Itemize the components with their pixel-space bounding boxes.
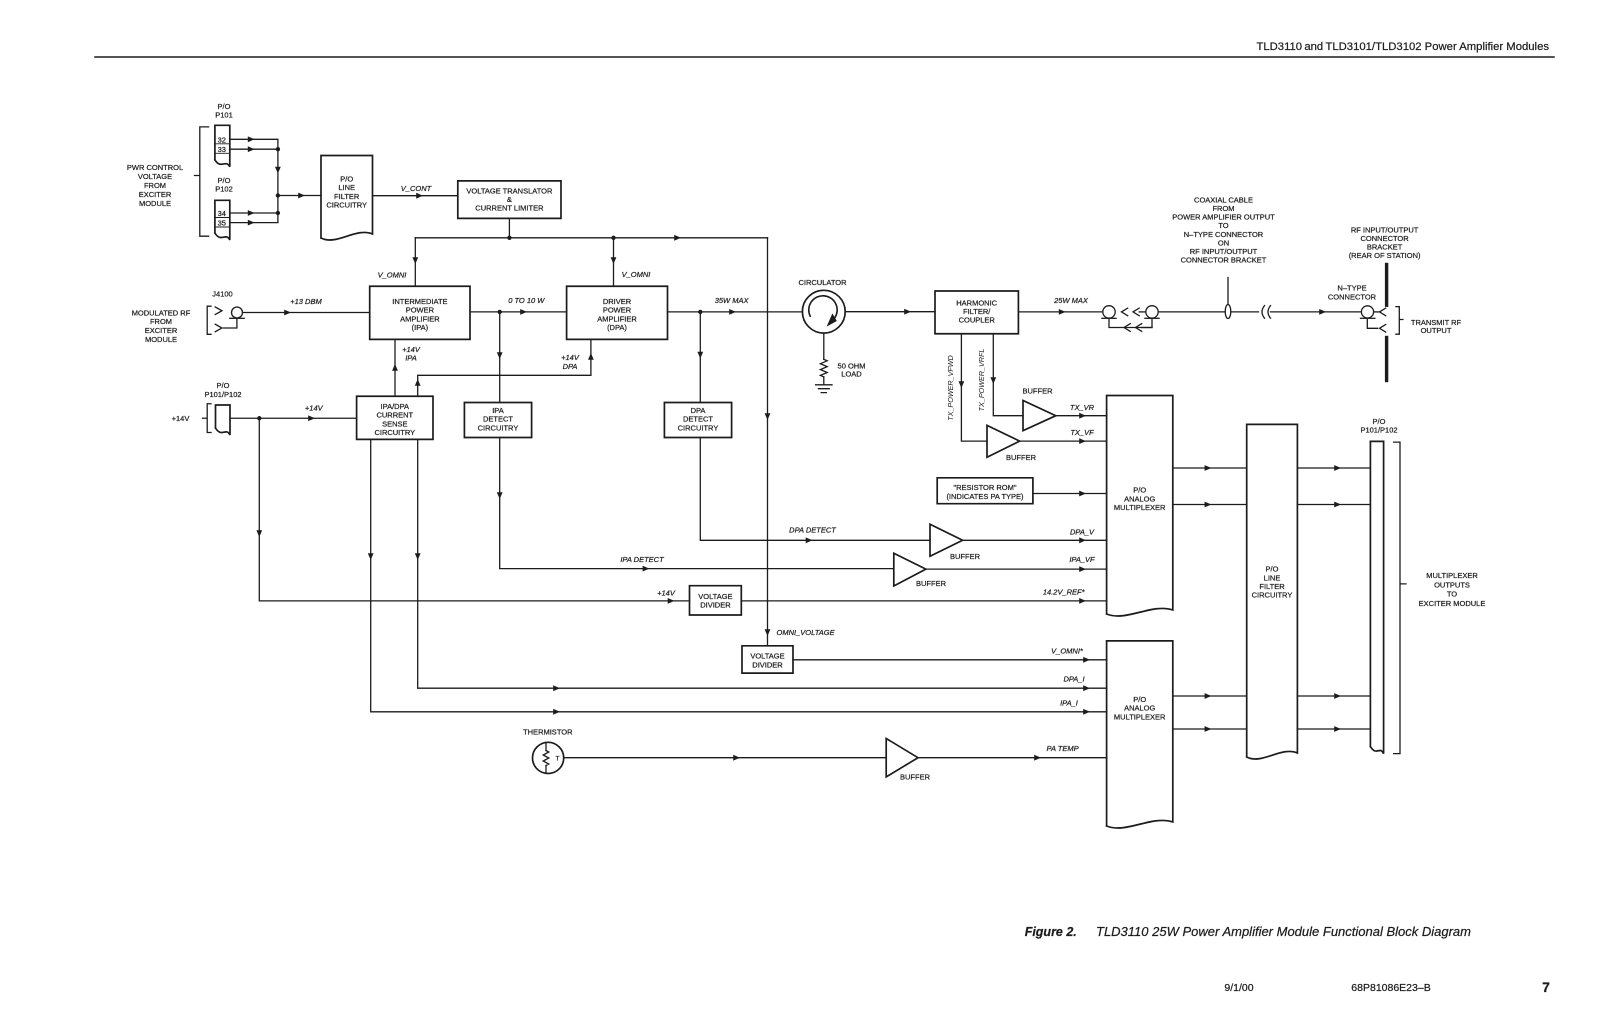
connector RF jack circle bbox=[230, 307, 244, 318]
block IPA DETECT CIRCUITRY bbox=[464, 403, 531, 438]
label RF INPUT/OUTPUT CONNECTOR BRACKET bbox=[1349, 225, 1421, 260]
block P/O LINE FILTER CIRCUITRY (right) bbox=[1247, 424, 1298, 759]
svg-text:DIVIDER: DIVIDER bbox=[752, 660, 783, 669]
caption Figure 2 bbox=[1025, 924, 1471, 939]
wire bus down to omni voltage divider bbox=[765, 238, 771, 646]
svg-text:MODULATED RF: MODULATED RF bbox=[132, 308, 191, 317]
label V_CONT bbox=[401, 184, 433, 193]
svg-text:FROM: FROM bbox=[150, 317, 172, 326]
wire mux2 out lower bbox=[1173, 726, 1247, 732]
label DPA DETECT bbox=[789, 526, 837, 535]
wire filter out 3 bbox=[1297, 693, 1370, 699]
wire mux2 out upper bbox=[1173, 693, 1247, 699]
label 25W MAX bbox=[1053, 296, 1089, 305]
block VOLTAGE DIVIDER (14.2V_REF) bbox=[690, 586, 742, 615]
wire filter out 4 bbox=[1297, 726, 1370, 732]
wire junction down to main node bbox=[275, 149, 281, 195]
bracket +14V connector bbox=[203, 404, 212, 433]
svg-text:33: 33 bbox=[218, 145, 226, 154]
svg-text:DPA: DPA bbox=[563, 362, 578, 371]
connector P102 (pins 34,35) bbox=[215, 200, 230, 240]
footer doc number bbox=[1351, 982, 1430, 994]
wire ROM to multiplexer bbox=[1033, 491, 1107, 497]
svg-text:P/O: P/O bbox=[1133, 486, 1146, 495]
node IPA output junction bbox=[498, 310, 502, 314]
label CIRCULATOR bbox=[798, 278, 847, 287]
svg-text:32: 32 bbox=[218, 135, 226, 144]
wire cable marker to break bbox=[1231, 311, 1259, 313]
node +14V junction bbox=[257, 416, 261, 420]
block IPA/DPA CURRENT SENSE CIRCUITRY bbox=[357, 396, 433, 439]
wire sense DPA_I out bbox=[415, 439, 1107, 691]
bracket bar upper bbox=[1385, 265, 1388, 306]
buffer DPA_V bbox=[930, 524, 963, 556]
svg-text:BUFFER: BUFFER bbox=[900, 772, 931, 781]
svg-text:FROM: FROM bbox=[144, 181, 166, 190]
wire TX_VF to multiplexer bbox=[1020, 438, 1107, 444]
label +14V (divider) bbox=[657, 588, 676, 597]
svg-text:35: 35 bbox=[218, 219, 226, 228]
wire DPA DETECT signal bbox=[700, 438, 930, 544]
buffer TX_VR (op-amp triangle) bbox=[1023, 401, 1056, 431]
svg-text:TO: TO bbox=[1447, 590, 1457, 599]
svg-text:LINE: LINE bbox=[1264, 573, 1281, 582]
label TX_POWER_VRFL bbox=[977, 349, 986, 412]
wire main node to line filter bbox=[278, 193, 321, 199]
block VOLTAGE TRANSLATOR & CURRENT LIMITER bbox=[458, 181, 561, 219]
svg-text:V_OMNI: V_OMNI bbox=[378, 271, 407, 280]
bracket left of P101/P102 bbox=[195, 127, 209, 236]
label BUFFER (TX_VF) bbox=[1006, 453, 1037, 462]
rf flow arrow lower 2 bbox=[1136, 324, 1153, 332]
wire +14V to current sense bbox=[230, 415, 357, 421]
page number 7 bbox=[1542, 979, 1550, 995]
svg-text:(REAR OF STATION): (REAR OF STATION) bbox=[1349, 251, 1421, 260]
wire TX_POWER_VFWD bbox=[959, 334, 988, 441]
connector coupler circle 2 bbox=[1145, 306, 1159, 319]
svg-text:IPA: IPA bbox=[405, 354, 417, 363]
svg-text:ANALOG: ANALOG bbox=[1124, 704, 1155, 713]
svg-text:+14V: +14V bbox=[561, 353, 580, 362]
svg-text:0 TO 10 W: 0 TO 10 W bbox=[508, 296, 545, 305]
svg-text:Figure 2.: Figure 2. bbox=[1025, 925, 1077, 939]
node DPA output junction bbox=[698, 310, 702, 314]
svg-text:34: 34 bbox=[218, 209, 226, 218]
svg-text:VOLTAGE: VOLTAGE bbox=[750, 652, 784, 661]
svg-text:25W MAX: 25W MAX bbox=[1053, 296, 1089, 305]
wire N connector to bracket bbox=[1374, 311, 1379, 313]
svg-text:7: 7 bbox=[1542, 979, 1550, 995]
svg-text:+14V: +14V bbox=[402, 345, 421, 354]
svg-text:CONNECTOR: CONNECTOR bbox=[1328, 292, 1377, 301]
pin chevron J4100 bottom bbox=[215, 324, 222, 332]
svg-text:ANALOG: ANALOG bbox=[1124, 494, 1155, 503]
pin chevron J4100 top bbox=[215, 307, 222, 315]
wire sense IPA_I out bbox=[368, 439, 1107, 714]
leader coax label to marker bbox=[1227, 278, 1229, 305]
wire pin 34 to junction bbox=[230, 210, 278, 216]
wire +14V down to voltage divider bbox=[256, 418, 689, 604]
label TX_VR bbox=[1070, 403, 1095, 412]
wire circulator to harmonic filter bbox=[845, 309, 935, 315]
wire mux1 out lower bbox=[1173, 502, 1247, 508]
wire bus down to IPA bbox=[412, 238, 418, 286]
svg-text:TX_POWER_VFWD: TX_POWER_VFWD bbox=[946, 355, 955, 421]
wire thermistor to buffer bbox=[564, 755, 887, 761]
label V_OMNI (DPA) bbox=[622, 270, 651, 279]
svg-text:35W MAX: 35W MAX bbox=[715, 296, 750, 305]
wire V_OMNI* to multiplexer bbox=[793, 657, 1107, 663]
connector P101/P102 (right flag) bbox=[1370, 441, 1383, 753]
wire lower chevron to jack bbox=[224, 318, 237, 328]
wire junction up to main node bbox=[277, 196, 279, 214]
svg-text:TX_POWER_VRFL: TX_POWER_VRFL bbox=[977, 349, 986, 412]
label 35W MAX bbox=[715, 296, 750, 305]
wire modulated RF to IPA bbox=[243, 310, 370, 316]
label MODULATED RF FROM EXCITER MODULE bbox=[132, 308, 191, 343]
label DPA_V bbox=[1070, 527, 1095, 536]
svg-text:PWR CONTROL: PWR CONTROL bbox=[127, 163, 183, 172]
svg-text:14.2V_REF*: 14.2V_REF* bbox=[1043, 588, 1086, 597]
svg-text:CURRENT LIMITER: CURRENT LIMITER bbox=[475, 204, 544, 213]
svg-text:P102: P102 bbox=[215, 185, 233, 194]
node main pwr-control junction bbox=[276, 193, 280, 197]
rf flow arrow upper 2 bbox=[1133, 308, 1146, 316]
footer date bbox=[1224, 982, 1253, 994]
svg-text:EXCITER: EXCITER bbox=[139, 190, 172, 199]
wire filter out 1 bbox=[1297, 465, 1370, 471]
svg-text:TLD3110 and TLD3101/TLD3102 Po: TLD3110 and TLD3101/TLD3102 Power Amplif… bbox=[1256, 41, 1549, 53]
block P/O LINE FILTER CIRCUITRY (left) bbox=[321, 156, 373, 241]
svg-text:OMNI_VOLTAGE: OMNI_VOLTAGE bbox=[777, 628, 836, 637]
svg-text:BUFFER: BUFFER bbox=[1006, 453, 1037, 462]
resistor 50 OHM LOAD bbox=[820, 359, 865, 378]
label BUFFER (PA TEMP) bbox=[900, 772, 931, 781]
wire sense to IPA +14V bbox=[392, 339, 398, 396]
block RESISTOR ROM bbox=[937, 478, 1033, 504]
svg-text:MODULE: MODULE bbox=[145, 335, 177, 344]
label 0 TO 10 W bbox=[508, 296, 545, 305]
label THERMISTOR bbox=[523, 728, 573, 737]
svg-text:(IPA): (IPA) bbox=[412, 323, 429, 332]
wire mux1 out upper bbox=[1173, 465, 1247, 471]
wire sense to DPA +14V bbox=[415, 339, 594, 396]
svg-text:TX_VF: TX_VF bbox=[1070, 428, 1094, 437]
connector P101 (pins 32,33) bbox=[215, 125, 230, 167]
svg-text:P/O: P/O bbox=[1133, 695, 1146, 704]
svg-text:CIRCUITRY: CIRCUITRY bbox=[678, 423, 719, 432]
wire TX_VR to multiplexer bbox=[1056, 413, 1107, 419]
svg-text:IPA: IPA bbox=[492, 406, 504, 415]
label MULTIPLEXER OUTPUTS TO EXCITER MODULE bbox=[1419, 571, 1486, 608]
wire DPA output to circulator bbox=[668, 309, 803, 315]
svg-text:(DPA): (DPA) bbox=[607, 323, 627, 332]
label DPA_I bbox=[1063, 675, 1084, 684]
bracket transmit rf bbox=[1396, 307, 1403, 335]
ground bbox=[816, 385, 832, 393]
svg-text:DETECT: DETECT bbox=[683, 415, 713, 424]
node bus junction at translator bbox=[507, 236, 511, 240]
label +14V source bbox=[172, 414, 190, 423]
label +14V (wire) bbox=[305, 403, 324, 412]
svg-text:BUFFER: BUFFER bbox=[916, 579, 947, 588]
block VOLTAGE DIVIDER (OMNI) bbox=[742, 646, 793, 673]
svg-text:T: T bbox=[556, 755, 560, 762]
label TX_POWER_VFWD bbox=[946, 355, 955, 421]
connector coupler circle 1 bbox=[1102, 306, 1116, 319]
block DPA DETECT CIRCUITRY bbox=[664, 403, 731, 438]
svg-text:MULTIPLEXER: MULTIPLEXER bbox=[1114, 712, 1166, 721]
wire coupler bypass bbox=[1109, 318, 1152, 327]
svg-text:CIRCULATOR: CIRCULATOR bbox=[798, 278, 847, 287]
wire IPA output to detect bbox=[497, 312, 503, 403]
svg-text:P/O: P/O bbox=[1266, 565, 1279, 574]
cable break marks bbox=[1262, 306, 1271, 319]
label J4100 bbox=[212, 290, 232, 299]
block P/O ANALOG MULTIPLEXER (lower) bbox=[1107, 641, 1173, 828]
svg-text:PA TEMP: PA TEMP bbox=[1047, 744, 1079, 753]
svg-text:IPA DETECT: IPA DETECT bbox=[620, 555, 665, 564]
svg-text:SENSE: SENSE bbox=[382, 419, 407, 428]
svg-text:COUPLER: COUPLER bbox=[959, 316, 996, 325]
svg-text:(INDICATES PA TYPE): (INDICATES PA TYPE) bbox=[946, 492, 1024, 501]
svg-text:DETECT: DETECT bbox=[483, 415, 513, 424]
label BUFFER (TX_VR) bbox=[1023, 386, 1054, 395]
svg-text:BUFFER: BUFFER bbox=[1023, 386, 1054, 395]
svg-text:+14V: +14V bbox=[305, 403, 324, 412]
svg-text:P101/P102: P101/P102 bbox=[1360, 426, 1397, 435]
label IPA_I bbox=[1060, 698, 1078, 707]
block P/O ANALOG MULTIPLEXER (upper) bbox=[1107, 396, 1173, 617]
buffer TX_VF (op-amp triangle) bbox=[987, 425, 1020, 457]
svg-text:DPA_I: DPA_I bbox=[1063, 675, 1084, 684]
svg-text:"RESISTOR ROM": "RESISTOR ROM" bbox=[953, 483, 1016, 492]
label 14.2V_REF* bbox=[1043, 588, 1086, 597]
svg-text:CIRCUITRY: CIRCUITRY bbox=[374, 428, 415, 437]
wire pin 32 to junction bbox=[230, 136, 278, 149]
label BUFFER (IPA_VF) bbox=[916, 579, 947, 588]
wire TX_POWER_VRFL bbox=[990, 334, 1023, 416]
wire load to ground bbox=[823, 377, 825, 385]
chevron at bracket upper bbox=[1380, 308, 1386, 316]
connector +14V flag bbox=[216, 405, 231, 435]
rf flow chevron lower 1 bbox=[1124, 324, 1130, 332]
thermistor bbox=[533, 742, 564, 773]
label +14V DPA bbox=[561, 353, 580, 371]
svg-text:IPA/DPA: IPA/DPA bbox=[381, 402, 409, 411]
label P/O P102 bbox=[215, 176, 233, 194]
buffer IPA_VF bbox=[894, 553, 926, 586]
svg-text:BUFFER: BUFFER bbox=[950, 552, 981, 561]
svg-text:VOLTAGE: VOLTAGE bbox=[138, 172, 172, 181]
wire 14.2V_REF* to multiplexer bbox=[741, 598, 1106, 604]
svg-text:CONNECTOR BRACKET: CONNECTOR BRACKET bbox=[1181, 256, 1267, 265]
svg-text:THERMISTOR: THERMISTOR bbox=[523, 728, 573, 737]
svg-text:EXCITER MODULE: EXCITER MODULE bbox=[1419, 599, 1486, 608]
block INTERMEDIATE POWER AMPLIFIER (IPA) bbox=[370, 286, 470, 339]
label TRANSMIT RF OUTPUT bbox=[1411, 318, 1462, 335]
svg-text:LOAD: LOAD bbox=[841, 370, 862, 379]
block HARMONIC FILTER/COUPLER bbox=[935, 291, 1018, 334]
wire IPA output to DPA bbox=[470, 309, 567, 315]
svg-text:FILTER: FILTER bbox=[1259, 582, 1285, 591]
svg-text:IPA_I: IPA_I bbox=[1060, 698, 1078, 707]
label +13 DBM bbox=[290, 297, 322, 306]
label IPA_VF bbox=[1069, 555, 1095, 564]
svg-text:J4100: J4100 bbox=[212, 290, 232, 299]
label OMNI_VOLTAGE bbox=[777, 628, 836, 637]
node junction 32/33 bbox=[276, 147, 280, 151]
svg-text:9/1/00: 9/1/00 bbox=[1224, 982, 1253, 994]
svg-text:OUTPUTS: OUTPUTS bbox=[1434, 580, 1470, 589]
wire PA TEMP to multiplexer bbox=[918, 755, 1107, 761]
rf flow chevron upper 1 bbox=[1122, 308, 1128, 316]
label IPA DETECT bbox=[620, 555, 665, 564]
svg-text:+14V: +14V bbox=[657, 588, 676, 597]
svg-text:P101: P101 bbox=[215, 111, 233, 120]
block DRIVER POWER AMPLIFIER (DPA) bbox=[567, 286, 668, 339]
wire V_CONT bbox=[373, 193, 458, 199]
label P/O P101 bbox=[215, 102, 233, 120]
label PWR CONTROL VOLTAGE FROM EXCITER MODULE bbox=[127, 163, 183, 208]
wire circulator to 50 ohm load bbox=[823, 333, 825, 359]
label P/O P101/P102 (right) bbox=[1360, 417, 1397, 435]
connector N-type circle bbox=[1361, 306, 1375, 319]
label V_OMNI* bbox=[1051, 646, 1084, 655]
wire bus down to DPA bbox=[611, 238, 617, 286]
wire V_OMNI bus horizontal bbox=[415, 235, 767, 241]
bracket bar lower bbox=[1385, 338, 1388, 381]
circulator bbox=[802, 290, 845, 333]
svg-text:DPA_V: DPA_V bbox=[1070, 527, 1095, 536]
svg-text:CIRCUITRY: CIRCUITRY bbox=[478, 423, 519, 432]
bracket multiplexer outputs bbox=[1394, 442, 1406, 753]
svg-text:DPA: DPA bbox=[691, 406, 706, 415]
wire pin 35 to junction bbox=[230, 213, 278, 226]
svg-text:+14V: +14V bbox=[172, 414, 190, 423]
svg-text:+13 DBM: +13 DBM bbox=[290, 297, 322, 306]
wire DPA_V to multiplexer bbox=[963, 537, 1107, 543]
svg-text:V_CONT: V_CONT bbox=[401, 184, 433, 193]
wire IPA_VF to multiplexer bbox=[926, 566, 1107, 572]
svg-text:EXCITER: EXCITER bbox=[145, 326, 178, 335]
header title text bbox=[1256, 41, 1549, 53]
svg-text:OUTPUT: OUTPUT bbox=[1421, 326, 1452, 335]
wire IPA DETECT signal bbox=[497, 438, 894, 572]
svg-text:V_OMNI*: V_OMNI* bbox=[1051, 646, 1084, 655]
chevron at bracket lower bbox=[1380, 325, 1386, 333]
header rule bbox=[95, 56, 1554, 58]
label N-TYPE CONNECTOR bbox=[1328, 284, 1377, 302]
wire 25W MAX out bbox=[1018, 309, 1102, 315]
svg-text:TLD3110 25W Power Amplifier M: TLD3110 25W Power Amplifier Module Funct… bbox=[1096, 924, 1471, 939]
label V_OMNI (IPA) bbox=[378, 271, 407, 280]
bracket modulated rf input bbox=[207, 306, 211, 334]
label COAXIAL CABLE note bbox=[1172, 195, 1275, 264]
svg-text:MULTIPLEXER: MULTIPLEXER bbox=[1114, 503, 1166, 512]
label PA TEMP bbox=[1047, 744, 1079, 753]
svg-text:CURRENT: CURRENT bbox=[376, 411, 413, 420]
label TX_VF bbox=[1070, 428, 1094, 437]
label +14V IPA bbox=[402, 345, 421, 363]
svg-text:DPA DETECT: DPA DETECT bbox=[789, 526, 837, 535]
svg-text:IPA_VF: IPA_VF bbox=[1069, 555, 1095, 564]
wire DPA output to detect bbox=[697, 312, 703, 403]
wire coupler to cable marker bbox=[1158, 311, 1225, 313]
wire N connector lower tap bbox=[1367, 318, 1377, 328]
wire cable to N-type connector bbox=[1271, 309, 1362, 315]
label BUFFER (DPA_V) bbox=[950, 552, 981, 561]
svg-text:CIRCUITRY: CIRCUITRY bbox=[326, 200, 367, 209]
svg-text:MODULE: MODULE bbox=[139, 199, 171, 208]
buffer PA TEMP bbox=[886, 739, 918, 777]
svg-text:MULTIPLEXER: MULTIPLEXER bbox=[1426, 571, 1478, 580]
svg-text:DIVIDER: DIVIDER bbox=[700, 601, 731, 610]
coax cable marker oval bbox=[1225, 305, 1231, 319]
node bus junction above DPA bbox=[611, 236, 615, 240]
svg-text:V_OMNI: V_OMNI bbox=[622, 270, 651, 279]
svg-text:P101/P102: P101/P102 bbox=[204, 390, 241, 399]
wire translator to bus bbox=[508, 218, 510, 237]
wire filter out 2 bbox=[1297, 502, 1370, 508]
svg-text:TX_VR: TX_VR bbox=[1070, 403, 1095, 412]
label P/O P101/P102 (left) bbox=[204, 381, 241, 399]
svg-text:CIRCUITRY: CIRCUITRY bbox=[1252, 591, 1293, 600]
svg-text:P/O: P/O bbox=[217, 381, 230, 390]
svg-text:68P81086E23–B: 68P81086E23–B bbox=[1351, 982, 1430, 994]
wire pin 33 to junction bbox=[230, 146, 278, 152]
node junction 34/35 bbox=[276, 211, 280, 215]
